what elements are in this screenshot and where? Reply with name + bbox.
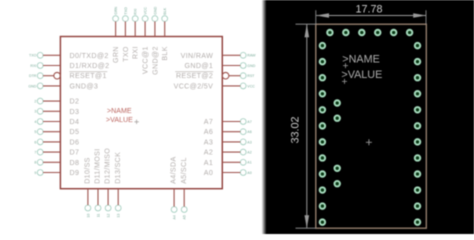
pad RXI (top row) (359, 30, 364, 35)
svg-text:TXO: TXO (124, 7, 128, 15)
svg-text:RAW: RAW (247, 54, 256, 58)
pad A1 (right column) (415, 139, 420, 144)
pad 11 (right column) (415, 203, 420, 208)
pin VCC@2/5V (right) (174, 82, 256, 90)
pad A0 (right column) (415, 155, 420, 160)
pad RXI (left column) (320, 59, 325, 64)
svg-text:D9: D9 (70, 169, 80, 177)
pin VCC@1 (top) (142, 7, 150, 74)
svg-text:VCC: VCC (144, 7, 148, 15)
pad 12 (right column) (415, 187, 420, 192)
pin D13/SCK (bottom) (114, 152, 122, 218)
pad RST (right column) (415, 75, 420, 80)
svg-text:GRN: GRN (114, 6, 118, 14)
svg-text:D3: D3 (70, 108, 80, 116)
op-amp-style symbol body U1 (ARDUINO_PRO_MINI) (60, 37, 222, 189)
svg-text:GND@1: GND@1 (185, 62, 214, 70)
pad 7 (left column) (320, 187, 325, 192)
board panel background (265, 0, 474, 234)
svg-text:A7: A7 (247, 120, 251, 124)
pin GND@3 (left) (28, 82, 98, 90)
svg-text:RESET@2: RESET@2 (176, 72, 213, 80)
svg-text:VCC: VCC (247, 84, 255, 88)
svg-text:A2: A2 (204, 149, 213, 157)
pin VIN/RAW (right) (181, 52, 257, 60)
pin GRN (top) (112, 6, 120, 63)
svg-text:A0: A0 (247, 171, 251, 175)
pin A2 (right) (204, 149, 252, 157)
svg-text:TXO: TXO (122, 46, 130, 62)
pad 10 (right column) (415, 219, 420, 224)
pad A7 (inner) (335, 181, 340, 186)
svg-text:A4: A4 (173, 215, 177, 219)
svg-text:A3: A3 (247, 140, 251, 144)
pad 2 (left column) (320, 107, 325, 112)
svg-text:GND: GND (28, 84, 36, 88)
svg-text:8: 8 (34, 161, 36, 165)
dimension 17.78 line (316, 10, 426, 24)
svg-text:>VALUE: >VALUE (106, 116, 133, 124)
svg-text:A0: A0 (204, 169, 213, 177)
svg-text:9: 9 (34, 171, 36, 175)
pin D6 (left) (34, 138, 79, 146)
svg-text:D0/TXD@2: D0/TXD@2 (70, 52, 109, 60)
svg-text:A1: A1 (204, 159, 213, 167)
svg-text:11: 11 (96, 214, 100, 218)
svg-text:3: 3 (34, 110, 36, 114)
svg-text:GND@3: GND@3 (70, 82, 99, 90)
pin D9 (left) (34, 169, 79, 177)
pad BLK (top row) (407, 30, 412, 35)
board outline (footprint) (316, 24, 427, 228)
pad GRN (top row) (327, 30, 332, 35)
pin BLK (top) (161, 7, 169, 60)
pin A7 (right) (204, 118, 252, 126)
footprint origin cross (366, 139, 372, 145)
text origin cross >NAME (343, 63, 348, 68)
pad TXO (top row) (343, 30, 348, 35)
pin D12/MISO (bottom) (104, 148, 112, 218)
pad 13 (right column) (415, 171, 420, 176)
svg-text:D8: D8 (70, 159, 80, 167)
pad A3 (right column) (415, 107, 420, 112)
schematic panel background (0, 0, 265, 234)
pin D7 (left) (34, 149, 79, 157)
pad RAW (right column) (415, 43, 420, 48)
svg-text:A3: A3 (204, 138, 213, 146)
svg-text:A6: A6 (204, 128, 213, 136)
pin RXI (top) (132, 9, 140, 59)
svg-text:A7: A7 (204, 118, 213, 126)
svg-text:13: 13 (117, 214, 121, 218)
text origin cross >VALUE (342, 79, 347, 84)
pin RESET@2 (right) (175, 72, 255, 81)
svg-text:D11/MOSI: D11/MOSI (94, 148, 102, 183)
pin D10/SS (bottom) (84, 157, 92, 217)
svg-text:D2: D2 (70, 98, 80, 106)
pad 4 (left column) (320, 139, 325, 144)
pin GND@1 (right) (185, 62, 256, 70)
svg-text:VIN/RAW: VIN/RAW (181, 52, 214, 60)
svg-text:RST: RST (247, 74, 255, 78)
pin A0 (right) (204, 169, 252, 177)
svg-text:A2: A2 (247, 151, 251, 155)
pin TXO (top) (122, 7, 130, 62)
svg-text:>NAME: >NAME (107, 107, 132, 115)
svg-text:33.02: 33.02 (290, 116, 302, 143)
pad 8 (left column) (320, 203, 325, 208)
pad VCC (right column) (415, 91, 420, 96)
pin D0/TXD@2 (left) (29, 52, 109, 60)
svg-text:D10/SS: D10/SS (84, 157, 92, 184)
pin A6 (right) (204, 128, 252, 136)
svg-text:BLK: BLK (163, 7, 167, 14)
svg-text:RESET@1: RESET@1 (70, 72, 107, 80)
svg-text:A5/SCL: A5/SCL (180, 157, 188, 184)
pin A5/SCL (bottom) (180, 157, 188, 219)
svg-text:GND: GND (153, 6, 157, 14)
pin A4/SDA (bottom) (170, 156, 178, 219)
svg-text:D1/RXD@2: D1/RXD@2 (70, 62, 110, 70)
svg-text:4: 4 (34, 120, 36, 124)
pin RESET@1 (left) (29, 72, 107, 81)
svg-text:RXI: RXI (30, 64, 36, 68)
pin A1 (right) (204, 159, 252, 167)
pad A6 (inner) (335, 166, 340, 171)
svg-text:2: 2 (34, 100, 36, 104)
svg-text:A1: A1 (247, 161, 251, 165)
pin D11/MOSI (bottom) (94, 148, 102, 217)
pin D2 (left) (34, 98, 79, 106)
pin A3 (right) (204, 138, 252, 146)
svg-text:D12/MISO: D12/MISO (104, 148, 112, 184)
pad A4 (inner) (335, 100, 340, 105)
pad GND (right column) (415, 59, 420, 64)
pad 5 (left column) (320, 155, 325, 160)
pad 9 (left column) (320, 219, 325, 224)
pin D5 (left) (34, 128, 79, 136)
svg-text:A4/SDA: A4/SDA (170, 156, 178, 183)
svg-text:TXO: TXO (29, 54, 37, 58)
pad GND (top row) (391, 30, 396, 35)
svg-text:12: 12 (107, 214, 111, 218)
pin D8 (left) (34, 159, 79, 167)
dimension 33.02 line (296, 24, 316, 228)
svg-text:10: 10 (86, 214, 90, 218)
svg-text:GND: GND (247, 64, 255, 68)
svg-text:D13/SCK: D13/SCK (114, 152, 122, 184)
origin cross (symbol) (134, 120, 138, 124)
svg-text:D4: D4 (70, 118, 80, 126)
svg-text:A6: A6 (247, 130, 251, 134)
svg-text:RXI: RXI (132, 46, 140, 59)
svg-text:D5: D5 (70, 128, 80, 136)
pad VCC (top row) (375, 30, 380, 35)
svg-text:>NAME: >NAME (342, 54, 380, 66)
pad GND (left column) (320, 91, 325, 96)
svg-text:>VALUE: >VALUE (341, 69, 382, 81)
svg-text:D6: D6 (70, 138, 80, 146)
svg-text:GND@2: GND@2 (151, 46, 159, 75)
svg-text:DTR: DTR (29, 74, 37, 78)
pin GND@2 (top) (151, 6, 159, 75)
pad 6 (left column) (320, 171, 325, 176)
svg-text:VCC@1: VCC@1 (142, 46, 150, 74)
svg-text:6: 6 (34, 140, 36, 144)
pad TXO (left column) (320, 43, 325, 48)
pad A2 (right column) (415, 123, 420, 128)
pin D1/RXD@2 (left) (30, 62, 109, 70)
pad A5 (inner) (335, 116, 340, 121)
svg-text:VCC@2/5V: VCC@2/5V (174, 82, 214, 90)
svg-text:BLK: BLK (161, 46, 169, 60)
svg-text:RXI: RXI (134, 9, 138, 15)
svg-text:7: 7 (34, 151, 36, 155)
pin D3 (left) (34, 108, 79, 116)
svg-text:D7: D7 (70, 149, 80, 157)
pin D4 (left) (34, 118, 79, 126)
svg-text:GRN: GRN (112, 46, 120, 63)
pad 3 (left column) (320, 123, 325, 128)
svg-text:5: 5 (34, 130, 36, 134)
svg-text:17.78: 17.78 (355, 4, 382, 16)
svg-text:A5: A5 (183, 215, 187, 219)
pad RST (left column) (320, 75, 325, 80)
